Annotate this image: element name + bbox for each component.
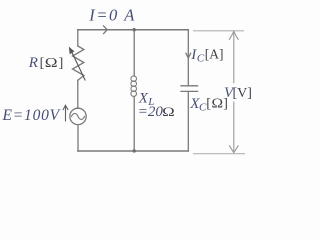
svg-text:C: C: [197, 53, 205, 65]
svg-text:E=100V: E=100V: [2, 107, 61, 124]
svg-text:=20: =20: [138, 104, 164, 120]
svg-text:[A]: [A]: [205, 47, 224, 62]
svg-text:[V]: [V]: [233, 86, 252, 101]
svg-text:Ω: Ω: [162, 105, 175, 119]
svg-text:Ω: Ω: [45, 56, 58, 71]
svg-text:I=0 A: I=0 A: [88, 6, 136, 25]
svg-text:R: R: [28, 55, 38, 71]
svg-text:]: ]: [59, 56, 64, 71]
svg-text:Ω: Ω: [212, 96, 224, 111]
